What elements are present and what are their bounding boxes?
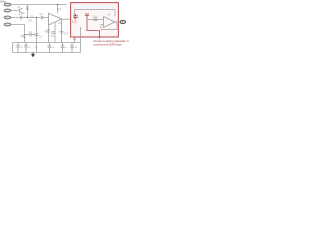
node junction B xyxy=(36,17,37,18)
connector OUT xyxy=(120,20,125,23)
node junction C xyxy=(57,4,58,5)
ground xyxy=(31,53,35,58)
resistor R10 xyxy=(94,18,98,20)
capacitor C5 xyxy=(24,43,27,53)
resistor R4 xyxy=(47,25,49,43)
wire from J2 xyxy=(11,10,19,12)
connector J1 xyxy=(4,3,11,6)
wire bottom bus xyxy=(13,42,81,44)
capacitor C13 xyxy=(25,33,35,36)
capacitor C2 xyxy=(41,16,42,20)
wire red branch xyxy=(87,16,100,39)
svg-text:C12: C12 xyxy=(64,32,69,35)
resistor R5 xyxy=(73,37,75,42)
connector J3 xyxy=(4,16,11,19)
capacitor C4 xyxy=(16,43,19,53)
capacitor C7 xyxy=(61,43,65,53)
resistor R2 xyxy=(23,33,25,42)
wire output xyxy=(115,21,120,23)
wire U1 output xyxy=(62,18,75,20)
capacitor C8 xyxy=(70,43,74,53)
resistor R1 xyxy=(26,5,28,18)
node junction A xyxy=(27,17,28,18)
wire from J3 xyxy=(11,17,20,19)
svg-text:R10: R10 xyxy=(93,16,98,19)
capacitor C12 xyxy=(60,19,64,42)
capacitor C3 xyxy=(35,34,39,36)
svg-text:must be low ESR type: must be low ESR type xyxy=(93,43,122,47)
op-amp U2 xyxy=(104,17,116,28)
wire from J4 xyxy=(11,25,25,34)
wire module ground return xyxy=(80,27,82,53)
capacitor C1 xyxy=(20,16,21,20)
svg-text:C10: C10 xyxy=(72,21,77,24)
wire rail drop xyxy=(57,5,59,14)
transistor Q1 xyxy=(20,8,25,13)
capacitor C6 xyxy=(48,43,52,53)
wire signal inside module xyxy=(87,18,104,20)
wire vertical from node B xyxy=(36,18,38,53)
wire bottom left vertical xyxy=(12,43,14,53)
wire to amp xyxy=(43,17,49,19)
capacitor C10 (red highlighted) xyxy=(73,14,78,20)
wire feedback loop xyxy=(101,22,117,30)
wire U1 lower input xyxy=(54,22,56,43)
connector J2 xyxy=(4,9,11,12)
highlight box (red) xyxy=(71,3,119,37)
connector J4 xyxy=(4,23,11,26)
capacitor C11 (red) xyxy=(85,14,89,16)
amplifier U1 xyxy=(49,13,62,25)
wire top rail xyxy=(11,4,67,6)
wire ground rail xyxy=(13,52,81,54)
wire module rail xyxy=(75,10,115,20)
wire signal mid xyxy=(22,17,41,19)
capacitor C9 (bypass) xyxy=(51,32,55,34)
